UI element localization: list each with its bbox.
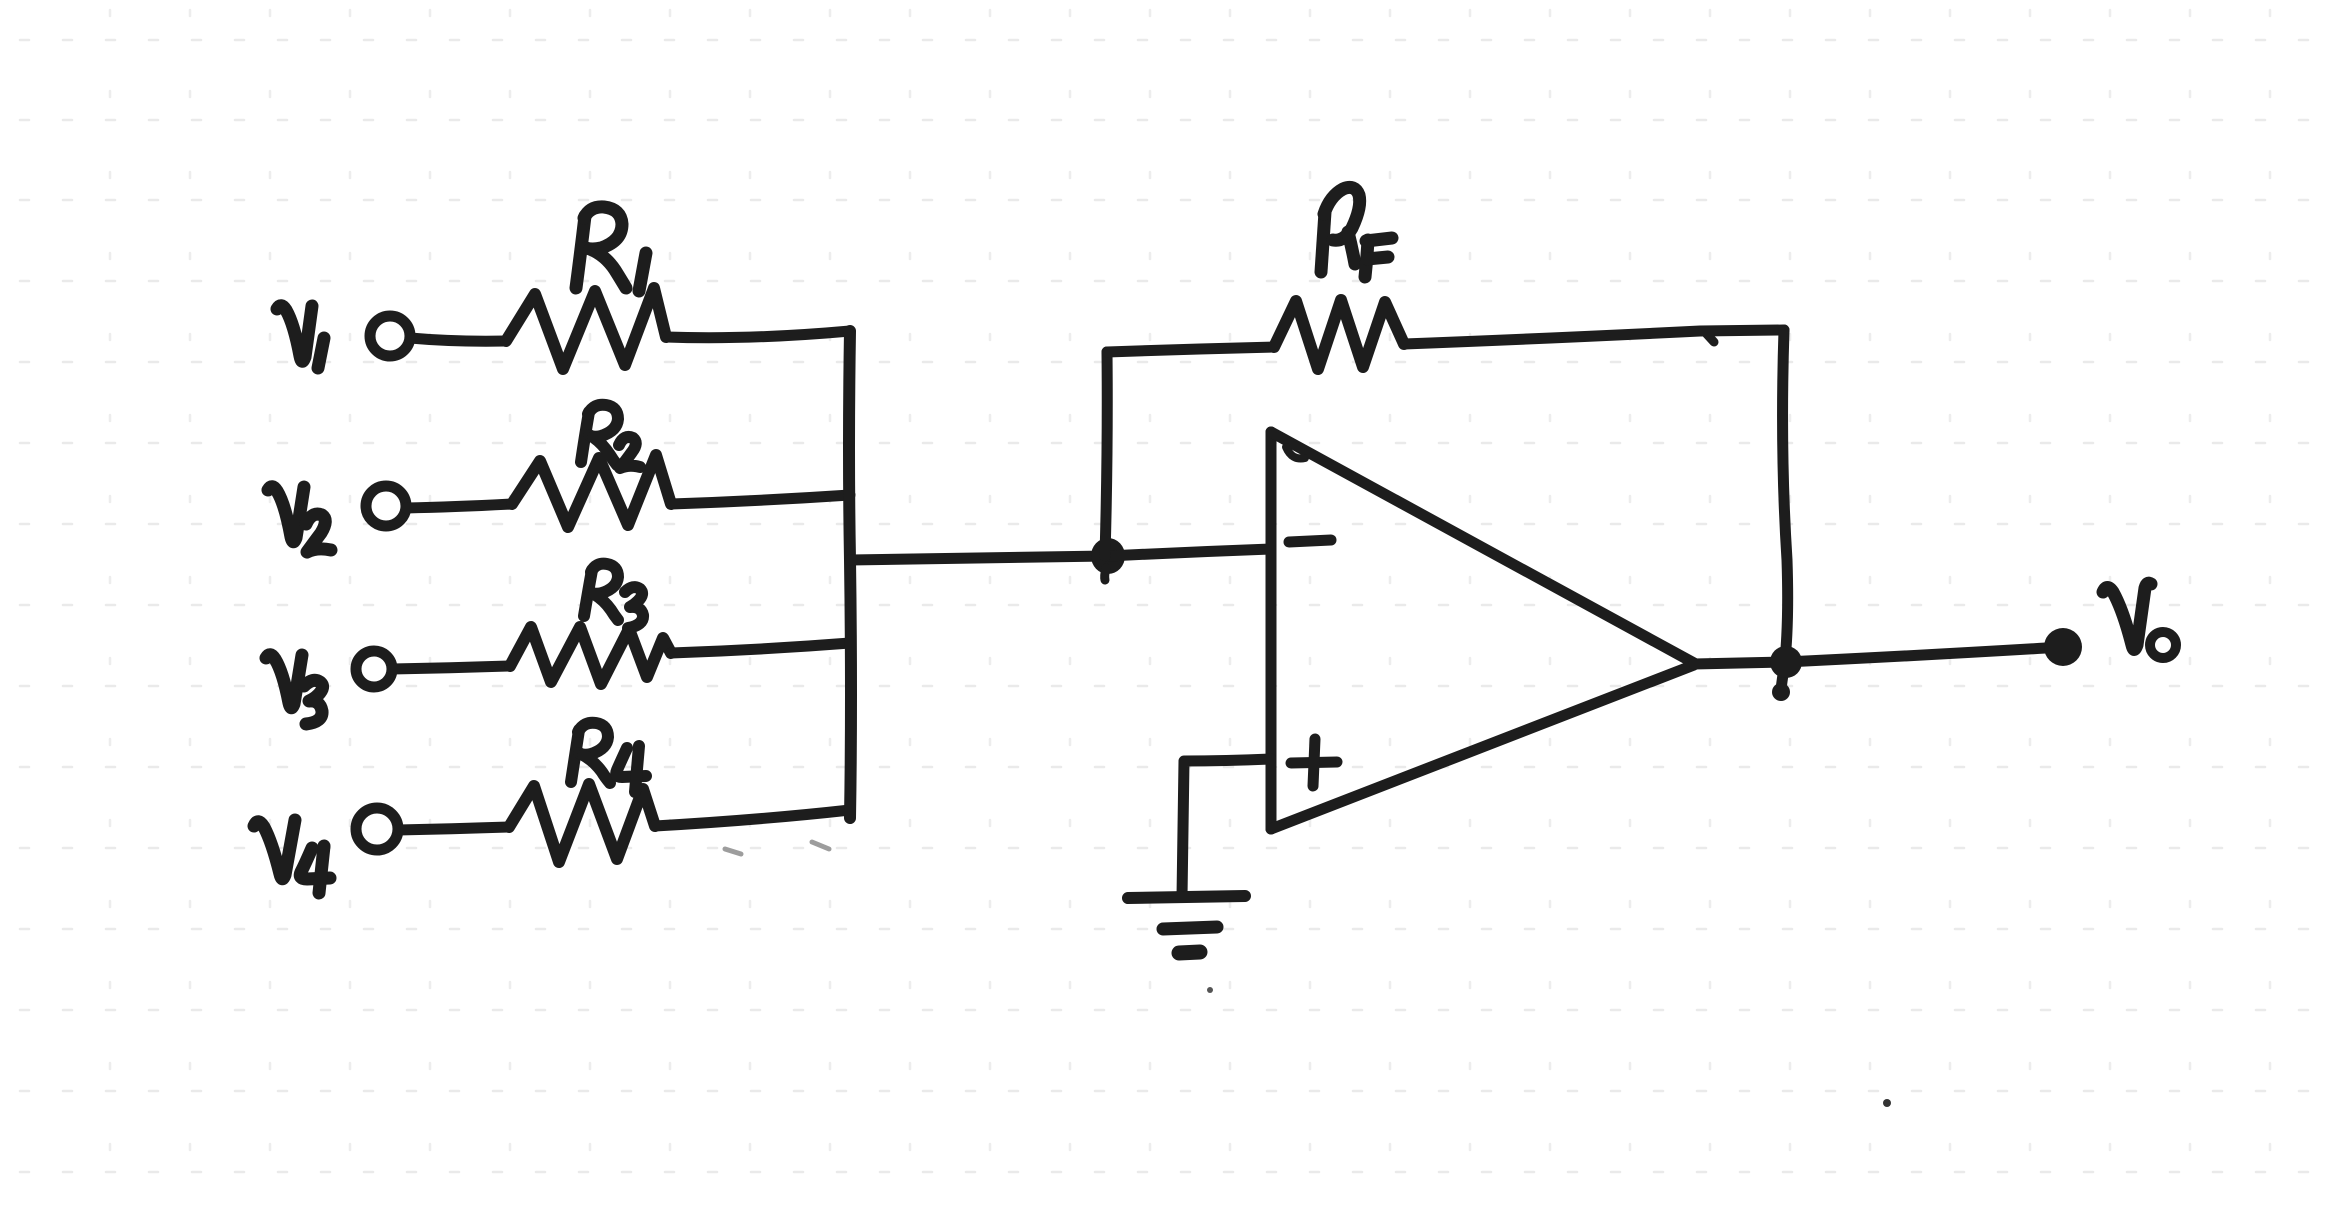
node V3 input terminal (356, 651, 392, 687)
wire R4 to summing bus (655, 810, 850, 826)
wire op-amp non-inverting input to ground (1182, 759, 1271, 897)
junction output node (1770, 646, 1802, 678)
wire feedback riser (junction up) (1105, 352, 1107, 556)
op-amp U1 inverting pin label (-) (1289, 540, 1331, 542)
wire summing junction to op-amp inverting input (1108, 549, 1271, 556)
resistor R2 (512, 455, 671, 527)
wire feedback top right segment (1404, 330, 1784, 344)
wire V3 terminal to R3 (392, 666, 510, 669)
wire R3 to summing bus (671, 643, 850, 653)
label R2 (581, 405, 640, 468)
wire R2 to summing bus (671, 495, 850, 504)
stray pen marks (decorative) (725, 849, 741, 854)
node V4 input terminal (356, 808, 398, 850)
op-amp U1 (1271, 432, 1694, 829)
wire summing bus (vertical) (849, 331, 851, 818)
label V2 (268, 487, 331, 552)
ground (1128, 896, 1245, 953)
wire op-amp output to Vo (1694, 648, 2046, 664)
resistor R3 (510, 627, 671, 684)
wire V2 terminal to R2 (406, 504, 512, 508)
op-amp U1 non-inverting pin label (+) (1291, 739, 1337, 786)
label Vo (2103, 583, 2176, 658)
wire feedback top left segment (1107, 347, 1274, 352)
wire R1 to summing bus (666, 331, 850, 338)
wire V1 terminal to R1 (410, 338, 506, 341)
wire feedback drop tail stub (1781, 662, 1785, 690)
wire bus tap to summing junction (850, 556, 1107, 560)
wire small pen tick on feedback wire (1703, 330, 1714, 342)
node V2 input terminal (366, 486, 406, 526)
junction summing node (1091, 538, 1125, 574)
wire V4 terminal to R4 (398, 827, 509, 830)
wire feedback drop (down to output node) (1783, 330, 1788, 660)
resistor R1 (506, 288, 666, 369)
label V4 (254, 820, 330, 893)
label V1 (277, 306, 324, 368)
label R4 (571, 723, 646, 792)
label R1 (576, 207, 646, 291)
resistor R4 (509, 784, 655, 862)
label R3 (584, 564, 643, 628)
node Vo output terminal (2044, 628, 2082, 666)
node V1 input terminal (370, 316, 410, 356)
resistor RF (1274, 300, 1404, 369)
label V3 (266, 655, 323, 724)
label RF (1321, 187, 1392, 277)
